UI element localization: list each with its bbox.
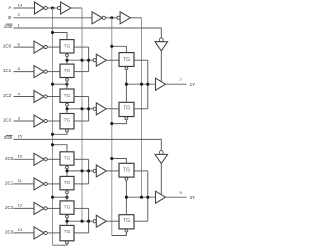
- svg-text:2Y: 2Y: [190, 195, 196, 200]
- node A-bar tap TG0, half 1: [51, 31, 54, 34]
- wire A input: [14, 7, 35, 9]
- wire TG top control pair 1, half 1: [66, 109, 68, 114]
- svg-text:TG: TG: [123, 57, 130, 63]
- wire level2 TG1 bottom tie to B-bar, half 1: [112, 120, 127, 124]
- wire level2 TG0 bubble link, half 2: [125, 181, 127, 198]
- wire 2C2 input: [14, 207, 35, 209]
- svg-text:4: 4: [18, 91, 21, 96]
- svg-text:5: 5: [18, 66, 21, 71]
- node tie-TG tee pair 0, half 1: [65, 59, 68, 62]
- wire inverter 2C3 to TG: [47, 232, 60, 234]
- svg-text:3: 3: [18, 115, 21, 120]
- svg-text:7: 7: [179, 77, 182, 82]
- inverter 2C0: [34, 153, 47, 165]
- wire TG bubble link pair 1, half 1: [66, 106, 68, 109]
- wire TG1 bubble to mid tie, half 1: [66, 81, 68, 84]
- svg-text:TG: TG: [123, 105, 130, 111]
- wire A1 to A2: [47, 7, 57, 9]
- svg-text:15: 15: [18, 134, 23, 139]
- node A rail tap pair 0, half 1: [80, 59, 83, 62]
- node level2 output join, half 1: [146, 83, 149, 86]
- wire inverter 1C0 to TG: [47, 46, 60, 48]
- wire level2 tie and buffer input, half 1: [126, 83, 155, 85]
- wire TG3 bottom tie to A-bar, half 1: [53, 132, 68, 134]
- svg-text:TG: TG: [64, 93, 71, 98]
- transmission gate TG2 (2C2): [60, 201, 74, 218]
- transmission gate TG1 (1C1): [60, 64, 74, 81]
- wire level2 TG0 top tap from B-bar, half 2: [112, 159, 127, 164]
- svg-text:10: 10: [18, 154, 23, 159]
- wire TG0 top tap from A-bar, half 1: [53, 33, 68, 40]
- wire inverter 2C0 to TG: [47, 158, 60, 160]
- wire TG top control pair 0, half 2: [66, 171, 68, 177]
- node A-bar tap: [51, 6, 54, 9]
- wire B input: [14, 17, 93, 19]
- node A rail tap pair 0, half 2: [80, 169, 83, 172]
- wire 1C3 input: [14, 120, 35, 122]
- svg-text:1: 1: [18, 22, 21, 27]
- node A-bar mid tie rail, half 1: [51, 83, 54, 86]
- wire level2 TG1 output, half 1: [134, 108, 148, 110]
- wire level2 TG1 top control, half 1: [125, 84, 127, 102]
- node tie-TG tee pair 1, half 1: [65, 107, 68, 110]
- wire level2 tie and buffer input, half 2: [126, 196, 155, 198]
- wire output 2Y: [166, 196, 187, 198]
- inverter 1C2: [34, 91, 47, 103]
- node B-bar tap level2 TG0, half 1: [110, 45, 113, 48]
- wire 2C3 input: [14, 232, 35, 234]
- wire 1C1 input: [14, 71, 35, 73]
- wire level2 TG0 output, half 2: [134, 170, 148, 172]
- inverter 1C0: [34, 41, 47, 53]
- wire output 1Y: [166, 83, 187, 85]
- node B rail tap, half 1: [140, 83, 143, 86]
- node TG3 bottom tie on A-bar rail, half 1: [51, 133, 54, 136]
- wire 1OE line: [14, 28, 162, 38]
- wire 1C0 input: [14, 46, 35, 48]
- pair inverter 0, half 2: [93, 165, 106, 177]
- wire 1C2 input: [14, 96, 35, 98]
- wire inverter 1C1 to TG: [47, 71, 60, 73]
- svg-text:2C1: 2C1: [5, 180, 14, 185]
- wire inverter 1C3 to TG: [47, 120, 60, 122]
- transmission gate TG1 (2C1): [60, 176, 74, 193]
- svg-text:A: A: [8, 5, 11, 10]
- inverter OE1 (active-low enable): [155, 38, 168, 51]
- wire TG bubble link pair 0, half 1: [66, 57, 68, 60]
- node level2 tie tee, half 1: [125, 83, 128, 86]
- transmission gate TG2 (1C2): [60, 89, 74, 106]
- wire TG bubble link pair 1, half 2: [66, 218, 68, 221]
- wire pair inverter 0 to level2 TG, half 1: [106, 59, 119, 61]
- wire 2C1 input: [14, 183, 35, 185]
- transmission gate level2 TG0, half 1: [119, 53, 134, 70]
- svg-text:TG: TG: [123, 168, 130, 174]
- node A rail tap pair 1, half 1: [80, 107, 83, 110]
- wire level2 output join vertical, half 1: [147, 60, 149, 109]
- wire TG2 output (2C2): [74, 207, 89, 209]
- svg-text:TG: TG: [64, 180, 71, 185]
- inverter 2C2: [34, 202, 47, 214]
- wire enable to output buffer 1: [160, 51, 162, 82]
- inverter 2C3: [34, 227, 47, 239]
- wire TG2 top control from mid tie, half 2: [66, 197, 68, 201]
- svg-text:9: 9: [179, 190, 182, 195]
- wire A-bar mid tie, half 2: [53, 196, 68, 198]
- svg-text:12: 12: [18, 203, 23, 208]
- wire A-bar rail: [52, 8, 54, 245]
- svg-text:1C0: 1C0: [3, 44, 12, 49]
- transmission gate TG3 (2C3): [60, 225, 74, 244]
- node tie-TG tee pair 0, half 2: [65, 169, 68, 172]
- wire control tie line pair 0, half 2: [67, 170, 93, 172]
- svg-text:2C3: 2C3: [5, 229, 14, 234]
- svg-text:1C3: 1C3: [3, 118, 12, 123]
- input 2OE label with overline: [4, 135, 13, 140]
- wire level2 TG0 output, half 1: [134, 59, 148, 61]
- wire control tie line pair 1, half 2: [67, 220, 93, 222]
- wire TG2 output (1C2): [74, 96, 89, 98]
- svg-text:6: 6: [18, 41, 21, 46]
- inverter 2C1: [34, 178, 47, 190]
- wire B rail: [130, 17, 141, 19]
- inverter 1C3: [34, 115, 47, 127]
- node B rail tap, half 2: [140, 196, 143, 199]
- inverter OE2 (active-low enable): [155, 151, 168, 164]
- inverter 1C1: [34, 66, 47, 78]
- inverter A2: [57, 2, 71, 14]
- node level2 TG1 bottom tie on B-bar rail, half 1: [110, 122, 113, 125]
- svg-text:TG: TG: [64, 68, 71, 73]
- wire TG top control pair 1, half 2: [66, 221, 68, 225]
- wire level2 TG1 bottom tie to B-bar, half 2: [112, 232, 127, 235]
- wire TG bubble link pair 0, half 2: [66, 169, 68, 171]
- wire TG0 output (2C0): [74, 158, 89, 160]
- pair inverter 1, half 1: [93, 103, 106, 115]
- node output join pair 0, half 1: [87, 59, 90, 62]
- wire level2 output join vertical, half 2: [147, 171, 149, 221]
- inverter B1: [92, 12, 106, 24]
- wire inverter 2C1 to TG: [47, 183, 60, 185]
- wire level2 TG1 top control, half 2: [125, 197, 127, 215]
- svg-text:TG: TG: [64, 229, 71, 234]
- node output join pair 1, half 1: [87, 107, 90, 110]
- svg-text:13: 13: [18, 227, 23, 232]
- wire pair inverter 1 to level2 TG, half 1: [106, 108, 119, 110]
- wire inverter 2C2 to TG: [47, 207, 60, 209]
- wire level2 TG0 top tap from B-bar, half 1: [112, 46, 127, 52]
- wire TG1 output (2C1): [74, 183, 89, 185]
- wire level2 TG0 bubble link, half 1: [125, 70, 127, 84]
- node tie-TG tee pair 1, half 2: [65, 220, 68, 223]
- wire TG1 bubble to mid tie, half 2: [66, 194, 68, 198]
- node output join pair 0, half 2: [87, 169, 90, 172]
- wire TG3 bottom tie to A-bar, half 2: [53, 244, 68, 245]
- transmission gate TG0 (1C0): [60, 40, 74, 57]
- wire 2OE line: [14, 139, 162, 150]
- pair inverter 1, half 2: [93, 215, 106, 227]
- svg-text:1OE: 1OE: [4, 24, 13, 29]
- node A-bar tap TG0, half 2: [51, 143, 54, 146]
- transmission gate level2 TG1, half 2: [119, 215, 134, 232]
- wire inverter 1C2 to TG: [47, 96, 60, 98]
- svg-text:TG: TG: [64, 43, 71, 48]
- svg-text:2OE: 2OE: [4, 135, 13, 140]
- wire TG top control pair 0, half 1: [66, 60, 68, 64]
- wire TG1 output (1C1): [74, 71, 89, 73]
- node A-bar mid tie tee, half 2: [65, 196, 68, 199]
- node level2 tie tee, half 2: [125, 196, 128, 199]
- wire TG3 output (1C3): [74, 120, 89, 122]
- node B-bar tap: [110, 16, 113, 19]
- svg-text:2C0: 2C0: [5, 156, 14, 161]
- svg-text:2: 2: [18, 12, 21, 17]
- output buffer 2Y (3-state): [156, 191, 166, 203]
- wire B-bar rail: [111, 18, 113, 236]
- svg-text:11: 11: [18, 178, 23, 183]
- wire TG0 top tap from A-bar, half 2: [53, 145, 68, 152]
- node A-bar mid tie tee, half 1: [65, 83, 68, 86]
- inverter B2: [117, 12, 130, 24]
- node A-bar mid tie rail, half 2: [51, 196, 54, 199]
- transmission gate TG0 (2C0): [60, 152, 74, 169]
- wire TG pair 1 output join, half 1: [88, 97, 90, 122]
- transmission gate level2 TG1, half 1: [119, 102, 134, 119]
- wire enable to output buffer 2: [160, 164, 162, 195]
- svg-text:14: 14: [18, 2, 23, 7]
- wire TG2 top control from mid tie, half 1: [66, 84, 68, 89]
- transmission gate TG3 (1C3): [60, 114, 74, 133]
- wire B1 to B2: [106, 17, 117, 19]
- node output join pair 1, half 2: [87, 220, 90, 223]
- node level2 output join, half 2: [146, 196, 149, 199]
- wire control tie line pair 1, half 1: [67, 108, 93, 110]
- wire control tie line pair 0, half 1: [67, 59, 93, 61]
- svg-text:1Y: 1Y: [190, 82, 196, 87]
- pair inverter 0, half 1: [93, 54, 106, 66]
- svg-text:TG: TG: [123, 218, 130, 224]
- inverter A1: [35, 2, 48, 14]
- svg-text:1C2: 1C2: [3, 93, 12, 98]
- wire pair inverter 0 to level2 TG, half 2: [106, 170, 119, 172]
- node A rail tap pair 1, half 2: [80, 220, 83, 223]
- wire TG3 output (2C3): [74, 232, 89, 234]
- wire A-bar mid tie, half 1: [53, 83, 68, 85]
- wire 2C0 input: [14, 158, 35, 160]
- svg-text:TG: TG: [64, 156, 71, 161]
- svg-text:B: B: [8, 15, 11, 20]
- wire TG pair 1 output join, half 2: [88, 208, 90, 233]
- svg-text:2C2: 2C2: [5, 205, 14, 210]
- wire TG0 output (1C0): [74, 46, 89, 48]
- wire TG pair 0 output join, half 1: [88, 47, 90, 72]
- svg-text:TG: TG: [64, 117, 71, 122]
- output buffer 1Y (3-state): [156, 78, 166, 90]
- svg-text:1C1: 1C1: [3, 68, 12, 73]
- svg-text:TG: TG: [64, 205, 71, 210]
- wire pair inverter 1 to level2 TG, half 2: [106, 220, 119, 222]
- transmission gate level2 TG0, half 2: [119, 163, 134, 180]
- wire level2 TG1 output, half 2: [134, 220, 148, 222]
- wire A rail: [71, 7, 82, 9]
- input 1OE label with overline: [4, 24, 13, 29]
- wire TG pair 0 output join, half 2: [88, 159, 90, 184]
- node B-bar tap level2 TG0, half 2: [110, 157, 113, 160]
